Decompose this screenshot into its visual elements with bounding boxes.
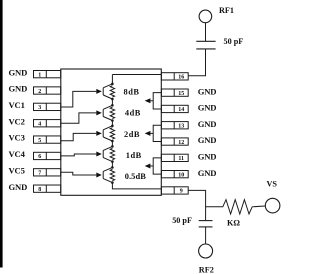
svg-text:13: 13 — [178, 124, 184, 130]
svg-text:GND: GND — [198, 135, 217, 145]
svg-text:10: 10 — [178, 172, 184, 178]
svg-text:12: 12 — [178, 140, 184, 146]
svg-text:50 pF: 50 pF — [172, 216, 192, 225]
svg-text:4dB: 4dB — [125, 109, 141, 118]
svg-text:GND: GND — [198, 119, 217, 129]
svg-text:VC2: VC2 — [9, 116, 25, 126]
svg-text:RF1: RF1 — [219, 6, 234, 15]
svg-text:0.5dB: 0.5dB — [125, 172, 147, 181]
svg-text:VS: VS — [267, 180, 278, 189]
svg-text:6: 6 — [38, 154, 41, 160]
svg-text:GND: GND — [9, 182, 28, 192]
svg-text:4: 4 — [38, 121, 41, 127]
svg-text:3: 3 — [38, 105, 41, 111]
svg-text:2dB: 2dB — [124, 130, 140, 139]
svg-text:KΩ: KΩ — [227, 219, 240, 228]
svg-text:1dB: 1dB — [126, 151, 142, 160]
svg-text:VC3: VC3 — [9, 133, 25, 143]
svg-text:GND: GND — [198, 103, 217, 113]
svg-text:50 pF: 50 pF — [224, 37, 244, 46]
svg-text:11: 11 — [178, 156, 184, 162]
svg-text:7: 7 — [38, 171, 41, 177]
svg-text:9: 9 — [180, 189, 183, 195]
svg-text:VC4: VC4 — [9, 149, 26, 159]
svg-text:15: 15 — [178, 91, 184, 97]
svg-text:VC1: VC1 — [9, 100, 25, 110]
svg-text:RF2: RF2 — [199, 266, 214, 274]
svg-text:GND: GND — [198, 168, 217, 178]
svg-text:1: 1 — [38, 72, 41, 78]
svg-text:GND: GND — [9, 67, 28, 77]
svg-text:GND: GND — [198, 86, 217, 96]
svg-text:VC5: VC5 — [9, 165, 25, 175]
svg-text:GND: GND — [198, 152, 217, 162]
svg-text:2: 2 — [38, 89, 41, 95]
svg-text:14: 14 — [178, 107, 184, 113]
svg-text:GND: GND — [9, 84, 28, 94]
svg-text:16: 16 — [178, 75, 184, 81]
svg-text:5: 5 — [38, 138, 41, 144]
svg-text:8: 8 — [38, 187, 41, 193]
svg-text:8dB: 8dB — [124, 88, 140, 97]
